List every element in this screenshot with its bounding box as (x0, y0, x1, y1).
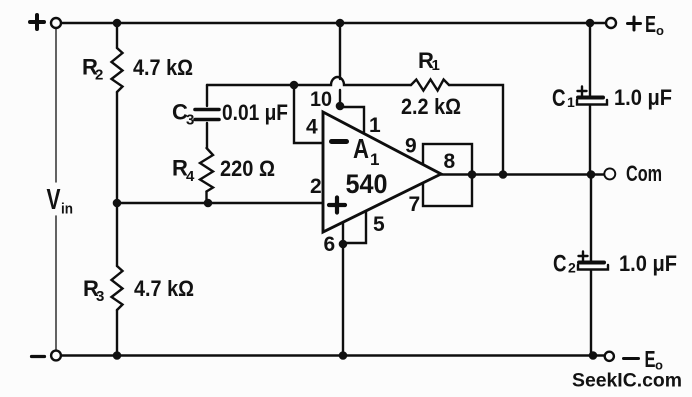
C2 plus sign (579, 252, 588, 261)
wire R1 right to output node (449, 85, 503, 175)
node output / box (468, 170, 477, 179)
node bottom rail / R3 (113, 351, 122, 360)
resistor R3 (112, 266, 123, 310)
svg-text:1: 1 (432, 57, 440, 74)
svg-text:3: 3 (186, 112, 194, 129)
svg-text:C: C (552, 85, 566, 112)
capacitor C3 (195, 110, 219, 120)
node output / R1 (499, 170, 508, 179)
svg-text:10: 10 (310, 88, 332, 111)
node bottom rail / C2 (589, 351, 598, 360)
terminal -Eo (605, 352, 614, 361)
wire bracket pin 5 (343, 211, 366, 243)
svg-text:6: 6 (324, 233, 336, 256)
resistor R2 (112, 48, 123, 92)
plus sign of +Eo label (628, 17, 641, 30)
wire pin 10 drop from top rail (339, 23, 341, 106)
minus sign bottom-left (32, 355, 45, 358)
terminal + input top-left (51, 18, 61, 28)
svg-text:2: 2 (310, 175, 322, 198)
capacitor C1 (electrolytic) (578, 96, 603, 100)
wire pin 6 drop to bottom rail (342, 223, 344, 356)
svg-text:A: A (353, 133, 369, 164)
node Com / C column (587, 170, 596, 179)
plus sign top-left (30, 15, 44, 29)
svg-text:1: 1 (370, 150, 379, 169)
svg-text:540: 540 (346, 169, 388, 199)
terminal - input bottom-left (51, 351, 61, 361)
resistor R4 (200, 148, 213, 192)
svg-text:9: 9 (405, 135, 417, 158)
node pin10 / pin1 (336, 102, 345, 111)
svg-text:3: 3 (96, 288, 104, 305)
svg-text:0.01 μF: 0.01 μF (222, 100, 288, 125)
svg-text:V: V (47, 184, 61, 216)
svg-text:2: 2 (568, 260, 576, 276)
wire bracket pin 1 (340, 107, 364, 132)
wire top rail (61, 22, 606, 24)
wire output to Com (441, 173, 605, 175)
svg-text:1: 1 (369, 114, 381, 137)
resistor R1 (411, 80, 449, 91)
svg-text:1.0 μF: 1.0 μF (614, 85, 672, 110)
wire feedback top (C3 top to R1, hop over pin10 wire) (207, 77, 411, 85)
output box pin 8 (423, 144, 472, 206)
capacitor C2 (electrolytic) (579, 261, 604, 265)
svg-text:1.0 μF: 1.0 μF (619, 251, 677, 276)
svg-text:in: in (61, 201, 73, 218)
terminal +Eo (606, 18, 616, 28)
node mid-left (113, 199, 122, 208)
wire C1 branch (589, 23, 591, 175)
svg-text:8: 8 (444, 150, 456, 173)
C1 plus sign (578, 87, 587, 96)
svg-text:5: 5 (373, 213, 385, 236)
minus sign of -Eo label (624, 357, 639, 360)
svg-text:2.2 kΩ: 2.2 kΩ (401, 94, 461, 119)
terminal Com (604, 168, 615, 179)
svg-text:1: 1 (567, 94, 575, 110)
wire C3 branch vertical (205, 85, 208, 203)
svg-text:2: 2 (95, 67, 103, 84)
node pin5 / pin6 (339, 240, 348, 249)
op-amp A1 triangle (323, 112, 441, 232)
svg-text:7: 7 (409, 193, 421, 216)
op-amp plus input sign (329, 198, 345, 213)
node bottom rail / pin6 (339, 351, 348, 360)
wire bottom rail (61, 354, 604, 356)
svg-text:220 Ω: 220 Ω (220, 156, 275, 181)
node top rail / pin10 (336, 19, 345, 28)
svg-text:o: o (656, 23, 664, 38)
svg-text:Com: Com (626, 161, 662, 186)
node top rail / C1 (586, 19, 595, 28)
svg-text:4: 4 (186, 168, 195, 185)
wire left rail (55, 29, 57, 350)
svg-text:E: E (645, 346, 656, 372)
svg-text:4.7 kΩ: 4.7 kΩ (134, 276, 194, 301)
wire mid horizontal to pin 2 (117, 202, 322, 204)
svg-text:C: C (553, 251, 567, 278)
svg-text:4.7 kΩ: 4.7 kΩ (133, 55, 193, 80)
node feedback / pin4 (290, 81, 299, 90)
svg-text:E: E (645, 11, 656, 37)
node top rail / R2 (113, 19, 122, 28)
wire C2 branch (590, 175, 592, 356)
wire bracket pin 4 (294, 85, 322, 143)
op-amp minus input sign (332, 139, 347, 144)
svg-text:SeekIC.com: SeekIC.com (572, 370, 682, 392)
node R4 bottom (204, 199, 213, 208)
wire left column R2-R3 (116, 23, 118, 356)
svg-text:4: 4 (306, 116, 318, 139)
